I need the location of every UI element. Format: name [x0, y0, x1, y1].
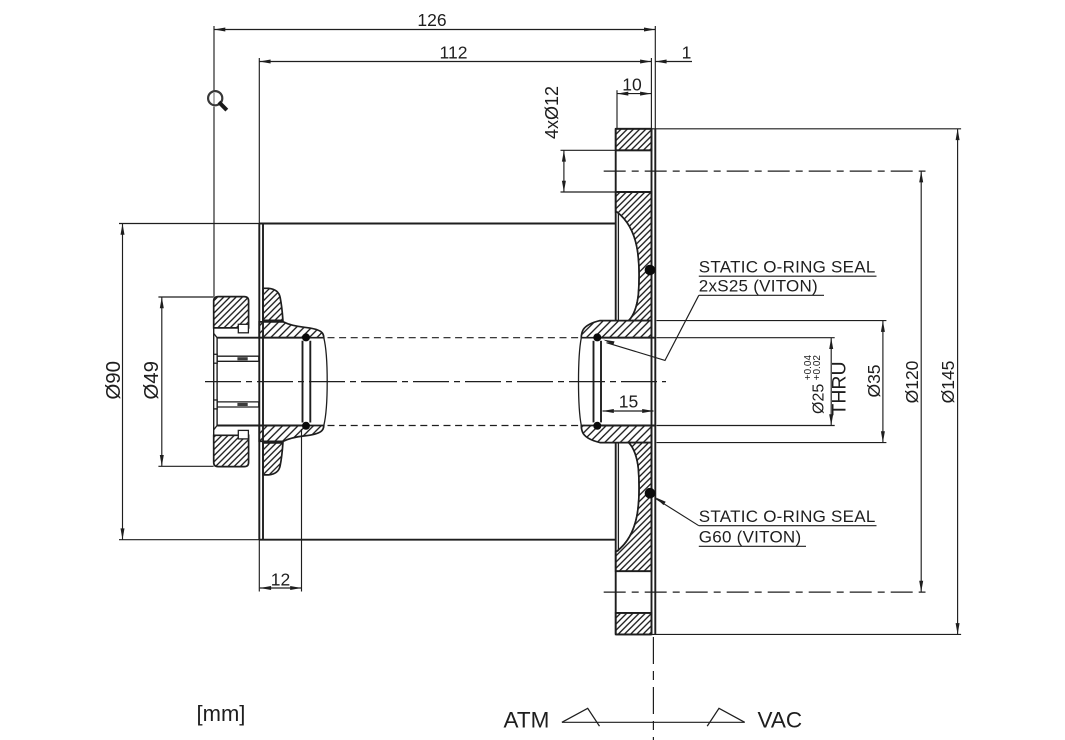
- lower spring prong: [217, 402, 259, 407]
- flange top block: [616, 129, 652, 151]
- hub sleeve wall right: [600, 341, 602, 423]
- label underline bottom2: [699, 545, 806, 547]
- o-ring G60 upper: [645, 265, 656, 276]
- arrows dim 4xO12: [562, 150, 566, 161]
- svg-text:Ø49: Ø49: [140, 361, 163, 400]
- flange bottom edge: [616, 633, 652, 635]
- dim O49 line: [161, 297, 163, 466]
- ext line left of dim 126: [213, 26, 215, 297]
- socket flange lower: [263, 443, 283, 475]
- flange bottom block: [616, 613, 652, 635]
- arrows dim 12: [260, 586, 271, 590]
- bore phantom line lower: [328, 425, 586, 427]
- nose tube lower wall: [259, 426, 324, 442]
- tube left end face inner line: [262, 224, 264, 540]
- upper spring prong: [217, 356, 259, 361]
- o-ring G60 lower: [645, 488, 656, 499]
- o-ring S25 left lower: [302, 422, 310, 430]
- socket flange upper: [263, 288, 283, 320]
- sleeve seal wall left: [302, 341, 304, 423]
- ext line bore upper right: [657, 337, 835, 339]
- lower prong head: [214, 400, 217, 409]
- flange bore lower edge: [601, 425, 655, 427]
- hub sleeve wall left: [593, 341, 595, 423]
- dim O25 line: [830, 338, 832, 426]
- flange raised lip face: [654, 129, 656, 635]
- clamp nut upper block: [214, 297, 249, 328]
- o-ring S25 hub lower: [593, 422, 601, 430]
- arrows dim O120: [919, 171, 923, 182]
- flange upper mid section with relief pocket: [616, 192, 652, 321]
- ext line hub bottom right: [657, 442, 887, 444]
- prong contact pad upper: [237, 357, 247, 360]
- arrow leader 2xS25: [603, 338, 615, 345]
- leader 2xS25: [607, 295, 699, 360]
- fitting bore lower edge: [217, 425, 302, 427]
- svg-text:Ø145: Ø145: [938, 361, 958, 404]
- bolt circle centerline lower: [604, 591, 926, 593]
- ext line bolt hole bottom: [561, 191, 616, 193]
- svg-text:1: 1: [682, 43, 692, 63]
- rib chamfer upper: [214, 333, 217, 337]
- section divider line below flange: [652, 637, 654, 740]
- bore phantom line upper: [328, 337, 586, 339]
- o-ring S25 hub upper: [593, 333, 601, 341]
- ext line nut bottom: [158, 465, 213, 467]
- svg-text:126: 126: [417, 10, 446, 30]
- bolt hole upper bottom edge: [616, 191, 652, 193]
- bolt circle centerline upper: [604, 170, 926, 172]
- dim 112 line: [259, 61, 651, 63]
- svg-text:4xØ12: 4xØ12: [542, 86, 562, 139]
- label underline bottom1: [699, 525, 877, 527]
- dim text O25 with tolerance: [803, 355, 827, 414]
- fitting inner rib line: [216, 338, 218, 426]
- arrows dim O90: [121, 224, 125, 235]
- upper prong head: [214, 354, 217, 363]
- flange hub lower wall: [581, 426, 651, 443]
- dim O145 line: [957, 129, 959, 635]
- arrow dim 1: [655, 60, 666, 64]
- dim 1 tail line: [655, 61, 692, 63]
- arrows dim O35: [881, 321, 885, 332]
- main horizontal centerline: [205, 381, 666, 383]
- bolt hole lower bottom edge: [616, 612, 652, 614]
- tube outer wall top: [259, 223, 615, 225]
- o-ring S25 left upper: [302, 333, 310, 341]
- arrows dim 112: [259, 60, 270, 64]
- svg-text:G60 (VITON): G60 (VITON): [699, 527, 802, 546]
- svg-text:STATIC O-RING SEAL: STATIC O-RING SEAL: [699, 507, 876, 526]
- label underline top1: [699, 275, 877, 277]
- ext line tube top left: [119, 223, 259, 225]
- bolt hole lower top edge: [616, 570, 652, 572]
- ext line flange top right: [652, 128, 961, 130]
- ext line flange face up: [650, 58, 652, 129]
- atm-vac baseline: [562, 721, 745, 723]
- ext line flange left face up: [616, 90, 618, 129]
- magnifier cursor: [208, 91, 225, 109]
- svg-text:VAC: VAC: [758, 708, 803, 733]
- flange counterbore rim line: [617, 212, 619, 551]
- flange hub upper wall: [581, 321, 651, 338]
- dim 126 line: [214, 29, 655, 31]
- ext line tube end up: [258, 58, 260, 224]
- dim O120 line: [920, 171, 922, 592]
- flange sealing face: [651, 129, 653, 635]
- svg-text:2xS25 (VITON): 2xS25 (VITON): [699, 277, 818, 296]
- svg-text:15: 15: [619, 392, 638, 412]
- bolt hole upper top edge: [616, 149, 652, 151]
- dim 4xO12 line: [563, 150, 565, 192]
- flange left face: [615, 129, 617, 635]
- ext line raised lip up: [654, 26, 656, 129]
- hub break line wavy: [579, 338, 582, 426]
- svg-text:10: 10: [622, 75, 642, 95]
- flow flag VAC: [707, 708, 745, 726]
- flange top edge: [616, 128, 652, 130]
- svg-text:Ø90: Ø90: [102, 361, 125, 400]
- ext line flange bottom right: [652, 633, 961, 635]
- relief pocket curve upper: [617, 212, 639, 321]
- arrows dim 15: [603, 409, 614, 413]
- relief pocket curve lower: [617, 443, 639, 552]
- prong contact pad lower: [237, 403, 247, 406]
- svg-text:[mm]: [mm]: [197, 701, 246, 726]
- svg-text:STATIC O-RING SEAL: STATIC O-RING SEAL: [699, 257, 876, 276]
- arrows dim 126: [214, 28, 225, 32]
- dim 12 line: [260, 587, 302, 589]
- svg-text:Ø35: Ø35: [864, 364, 884, 397]
- dim O90 line: [122, 224, 124, 540]
- sleeve seal wall right: [309, 341, 311, 423]
- ext line nut top: [158, 296, 213, 298]
- svg-text:Ø120: Ø120: [902, 360, 922, 403]
- leader G60: [656, 499, 699, 526]
- fitting left face rib: [213, 328, 215, 435]
- arrows dim 10: [617, 92, 628, 96]
- clamp nut lower block: [214, 435, 249, 466]
- arrows dim O145: [956, 129, 960, 140]
- tube outer wall bottom: [259, 539, 615, 541]
- ext line tube end down: [258, 540, 260, 592]
- svg-text:THRU: THRU: [829, 361, 851, 415]
- svg-text:112: 112: [440, 43, 468, 63]
- flange bore upper edge: [601, 337, 655, 339]
- tube left end face outer line: [258, 224, 260, 540]
- svg-text:12: 12: [271, 570, 290, 590]
- flow flag ATM: [562, 708, 600, 726]
- ext line hub top right: [657, 320, 887, 322]
- ext line tube bottom left: [119, 539, 259, 541]
- nose tube upper wall: [259, 322, 324, 338]
- ext line sleeve down: [301, 429, 303, 592]
- rib chamfer lower: [214, 426, 217, 430]
- label underline top2: [699, 294, 824, 296]
- svg-text:ATM: ATM: [504, 708, 550, 733]
- nose break line wavy: [324, 338, 327, 426]
- ext line bolt hole top: [561, 149, 616, 151]
- dim 15 line: [603, 410, 654, 412]
- dim 10 line: [617, 93, 651, 95]
- arrows dim O49: [160, 297, 164, 308]
- arrow leader G60: [654, 496, 666, 506]
- fitting bore upper edge: [217, 337, 302, 339]
- ext line bore lower right: [657, 425, 835, 427]
- arrows dim O25: [829, 338, 833, 349]
- dim O35 line: [882, 321, 884, 443]
- flange lower mid section with relief pocket: [616, 443, 652, 572]
